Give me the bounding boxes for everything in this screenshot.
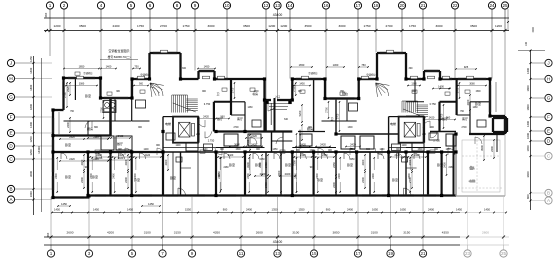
svg-text:1200: 1200 xyxy=(280,24,287,28)
svg-text:1: 1 xyxy=(49,3,52,8)
svg-text:2450: 2450 xyxy=(259,159,265,161)
svg-text:17: 17 xyxy=(355,251,361,256)
svg-text:1400: 1400 xyxy=(526,68,530,74)
svg-text:餐厅: 餐厅 xyxy=(442,116,448,121)
svg-text:2700: 2700 xyxy=(64,92,67,98)
svg-text:2700: 2700 xyxy=(461,127,467,129)
svg-text:9: 9 xyxy=(191,251,194,256)
svg-text:2400: 2400 xyxy=(347,208,353,212)
svg-text:900: 900 xyxy=(223,208,228,212)
svg-text:25: 25 xyxy=(501,251,507,256)
svg-text:2420: 2420 xyxy=(69,158,75,161)
svg-text:17: 17 xyxy=(355,3,361,8)
svg-text:13: 13 xyxy=(275,251,281,256)
svg-text:900: 900 xyxy=(156,145,161,147)
svg-text:G: G xyxy=(547,96,551,101)
small fixture marks xyxy=(75,72,470,153)
svg-text:3: 3 xyxy=(88,251,91,256)
svg-text:C: C xyxy=(547,154,551,159)
svg-text:1500: 1500 xyxy=(349,149,355,151)
center vestibule shaft walls xyxy=(266,98,275,132)
svg-text:25: 25 xyxy=(502,3,508,8)
svg-text:2400: 2400 xyxy=(80,177,84,183)
svg-text:卧室: 卧室 xyxy=(65,142,71,147)
svg-text:H: H xyxy=(547,77,550,82)
svg-text:2400: 2400 xyxy=(372,173,375,179)
outer wall left edge xyxy=(53,78,64,198)
outer wall top mid-right xyxy=(292,79,377,99)
window bay left xyxy=(199,71,215,79)
svg-text:2400: 2400 xyxy=(134,173,137,179)
svg-text:餐厅: 餐厅 xyxy=(117,141,123,146)
outer wall bottom-left wing xyxy=(52,196,90,198)
svg-text:2420: 2420 xyxy=(69,136,75,139)
svg-text:1200: 1200 xyxy=(175,145,181,147)
svg-text:18: 18 xyxy=(373,3,379,8)
svg-text:客厅: 客厅 xyxy=(462,116,468,121)
corridor walls at cores xyxy=(163,117,441,148)
svg-text:925: 925 xyxy=(464,65,469,69)
svg-text:1300: 1300 xyxy=(333,63,339,67)
svg-text:750: 750 xyxy=(361,63,366,67)
svg-text:750: 750 xyxy=(134,64,139,68)
svg-text:2400: 2400 xyxy=(90,173,93,179)
svg-text:2280: 2280 xyxy=(448,167,454,169)
svg-text:2400: 2400 xyxy=(361,177,365,183)
svg-text:2420: 2420 xyxy=(414,154,420,157)
svg-text:900: 900 xyxy=(430,127,435,129)
left mid-band dim rows xyxy=(59,136,108,162)
svg-text:D: D xyxy=(547,139,551,144)
svg-text:380: 380 xyxy=(116,91,121,93)
plan title note xyxy=(100,48,138,60)
upper band partitions right unit xyxy=(322,79,498,196)
svg-text:16: 16 xyxy=(323,3,329,8)
svg-text:3.750: 3.750 xyxy=(429,102,436,106)
svg-text:E: E xyxy=(547,129,550,134)
entry halls below cores xyxy=(173,152,424,196)
svg-text:2400: 2400 xyxy=(428,208,434,212)
svg-text:3900: 3900 xyxy=(480,145,484,151)
svg-text:190: 190 xyxy=(46,233,50,238)
svg-text:5: 5 xyxy=(131,251,134,256)
svg-text:1450: 1450 xyxy=(526,145,530,151)
svg-text:1550: 1550 xyxy=(299,208,305,212)
svg-text:2420: 2420 xyxy=(203,114,209,118)
svg-text:1500: 1500 xyxy=(417,149,423,151)
svg-text:1460: 1460 xyxy=(247,107,253,109)
svg-text:1250: 1250 xyxy=(29,149,33,155)
svg-text:2700: 2700 xyxy=(233,127,239,129)
svg-text:卧室: 卧室 xyxy=(437,162,443,167)
svg-text:卧室: 卧室 xyxy=(392,177,398,182)
corridor micro dimensions xyxy=(70,91,481,169)
bottom dimension rows with axis bubbles 1-25 xyxy=(44,197,509,257)
svg-text:900: 900 xyxy=(298,91,303,93)
svg-text:1800: 1800 xyxy=(526,104,530,110)
kitchen stove fixture xyxy=(103,101,116,113)
svg-text:2420: 2420 xyxy=(118,154,124,157)
svg-text:2280: 2280 xyxy=(223,167,229,169)
svg-text:卫: 卫 xyxy=(216,92,219,96)
svg-text:1200: 1200 xyxy=(54,24,61,28)
svg-text:2420: 2420 xyxy=(93,136,99,139)
svg-text:3100: 3100 xyxy=(144,231,151,235)
svg-text:2420: 2420 xyxy=(395,154,401,157)
svg-text:1400: 1400 xyxy=(438,84,444,88)
svg-text:1750: 1750 xyxy=(409,24,416,28)
svg-text:1500: 1500 xyxy=(532,27,535,33)
svg-text:6: 6 xyxy=(149,3,152,8)
svg-text:800: 800 xyxy=(94,127,99,129)
outer wall right cap xyxy=(469,79,505,134)
svg-text:H: H xyxy=(9,76,12,81)
svg-text:8: 8 xyxy=(176,3,179,8)
svg-text:F: F xyxy=(10,115,13,120)
window frame marks top facade xyxy=(77,50,474,79)
svg-text:2600: 2600 xyxy=(256,231,263,235)
svg-text:住1: 住1 xyxy=(470,165,475,170)
svg-text:3400: 3400 xyxy=(526,171,530,177)
corridor fixtures xyxy=(166,120,486,151)
svg-text:2400: 2400 xyxy=(408,173,411,179)
svg-text:卧室: 卧室 xyxy=(85,93,91,98)
svg-text:F: F xyxy=(547,115,550,120)
door swing arcs xyxy=(85,104,482,155)
svg-text:900: 900 xyxy=(220,149,225,151)
svg-text:900: 900 xyxy=(326,208,331,212)
svg-text:24: 24 xyxy=(489,3,495,8)
svg-text:B: B xyxy=(547,191,550,196)
svg-text:15: 15 xyxy=(311,251,317,256)
svg-text:19: 19 xyxy=(388,251,394,256)
svg-text:4: 4 xyxy=(100,3,103,8)
svg-text:21: 21 xyxy=(420,3,426,8)
svg-text:2400: 2400 xyxy=(490,146,494,152)
svg-text:2420: 2420 xyxy=(350,142,356,146)
center recess wall xyxy=(265,79,293,100)
svg-text:760: 760 xyxy=(70,111,75,113)
svg-text:1000: 1000 xyxy=(29,191,33,197)
svg-text:3100: 3100 xyxy=(371,231,378,235)
svg-text:190: 190 xyxy=(44,13,48,18)
svg-text:2700: 2700 xyxy=(326,107,329,113)
faint adjacent unit bottom right xyxy=(456,134,505,196)
svg-text:2400: 2400 xyxy=(332,182,336,188)
svg-text:卧室: 卧室 xyxy=(229,162,235,167)
svg-text:A: A xyxy=(547,198,551,203)
svg-text:760: 760 xyxy=(460,111,465,113)
right dimension column with axis bubbles A-J xyxy=(507,9,552,210)
svg-text:1750: 1750 xyxy=(364,24,371,28)
svg-text:1800: 1800 xyxy=(29,104,33,110)
upper cell sill dims xyxy=(65,82,486,86)
svg-text:1500: 1500 xyxy=(475,91,481,93)
svg-text:20: 20 xyxy=(399,3,405,8)
svg-text:1100: 1100 xyxy=(380,149,386,151)
stair bay right xyxy=(377,53,406,79)
svg-text:电梯: 电梯 xyxy=(165,121,171,126)
svg-text:2400: 2400 xyxy=(338,173,341,179)
svg-text:3000: 3000 xyxy=(208,24,215,28)
svg-text:800: 800 xyxy=(526,194,530,199)
svg-text:100: 100 xyxy=(525,41,528,46)
svg-text:900: 900 xyxy=(412,91,417,93)
svg-text:10: 10 xyxy=(224,3,230,8)
svg-text:300: 300 xyxy=(182,67,187,70)
svg-text:2450: 2450 xyxy=(442,162,446,168)
svg-text:2400: 2400 xyxy=(124,159,128,165)
svg-text:2400: 2400 xyxy=(247,173,250,179)
svg-text:C: C xyxy=(9,157,13,162)
svg-text:13: 13 xyxy=(275,3,281,8)
side rooms next to stair bays xyxy=(59,82,496,134)
svg-text:2600: 2600 xyxy=(482,231,489,235)
svg-text:14400: 14400 xyxy=(37,146,41,154)
svg-text:2420: 2420 xyxy=(118,134,124,138)
winder stair right bay xyxy=(376,83,390,97)
svg-text:3.750: 3.750 xyxy=(204,102,211,106)
svg-text:卧室: 卧室 xyxy=(475,101,481,106)
svg-text:2700: 2700 xyxy=(160,24,167,28)
svg-text:2420: 2420 xyxy=(300,154,306,157)
svg-text:2400: 2400 xyxy=(113,173,116,179)
outer wall top right xyxy=(406,78,490,80)
bay and entry micro labels xyxy=(182,67,413,99)
svg-text:2: 2 xyxy=(63,3,66,8)
svg-text:11: 11 xyxy=(239,251,244,256)
svg-text:3900: 3900 xyxy=(277,170,281,176)
svg-text:2420: 2420 xyxy=(145,154,151,157)
svg-text:2.750: 2.750 xyxy=(208,139,215,143)
outer wall top mid-left xyxy=(181,78,265,80)
svg-text:1450: 1450 xyxy=(127,208,133,212)
window bay right xyxy=(424,71,440,79)
outer wall top-left block xyxy=(64,78,150,98)
svg-text:21: 21 xyxy=(420,251,426,256)
svg-text:900: 900 xyxy=(138,127,143,129)
svg-text:3080: 3080 xyxy=(79,82,85,85)
svg-text:2400: 2400 xyxy=(113,24,120,28)
room name labels xyxy=(85,91,481,182)
svg-text:2400: 2400 xyxy=(408,159,412,165)
svg-text:卧室: 卧室 xyxy=(285,162,291,167)
svg-text:1800: 1800 xyxy=(526,85,530,91)
svg-text:240: 240 xyxy=(422,134,427,136)
svg-text:空调机位: 空调机位 xyxy=(83,71,93,75)
svg-text:900: 900 xyxy=(139,82,144,85)
svg-text:1200: 1200 xyxy=(268,24,275,28)
svg-text:2400: 2400 xyxy=(124,177,128,183)
svg-text:3500: 3500 xyxy=(79,24,86,28)
svg-text:4350: 4350 xyxy=(213,231,220,235)
svg-text:2420: 2420 xyxy=(66,86,70,92)
svg-text:2420: 2420 xyxy=(251,142,257,146)
svg-text:空调机位: 空调机位 xyxy=(366,73,376,77)
svg-text:1460: 1460 xyxy=(472,107,478,109)
svg-text:1300: 1300 xyxy=(347,127,353,129)
extra room labels xyxy=(65,116,448,179)
svg-text:A: A xyxy=(9,197,13,202)
svg-text:1650: 1650 xyxy=(299,63,305,67)
svg-text:电梯: 电梯 xyxy=(390,121,396,126)
svg-text:12: 12 xyxy=(263,3,269,8)
stair bay left xyxy=(150,53,181,79)
svg-text:1500: 1500 xyxy=(235,149,241,151)
svg-text:E: E xyxy=(9,131,12,136)
svg-text:卫: 卫 xyxy=(330,117,333,121)
svg-text:2700: 2700 xyxy=(337,113,340,119)
svg-text:1200: 1200 xyxy=(143,149,149,151)
svg-text:2.750: 2.750 xyxy=(433,139,440,143)
svg-text:卧室: 卧室 xyxy=(65,174,71,179)
svg-text:22: 22 xyxy=(452,3,458,8)
svg-text:2500: 2500 xyxy=(298,129,302,135)
svg-text:900: 900 xyxy=(256,149,261,151)
svg-text:4200: 4200 xyxy=(107,231,114,235)
winder stair left bay xyxy=(150,83,164,97)
svg-text:23: 23 xyxy=(465,251,471,256)
svg-text:2400: 2400 xyxy=(246,139,250,145)
structural column blobs xyxy=(51,76,491,199)
upper band room dims xyxy=(64,82,460,131)
vertical axis grid lines from top xyxy=(50,31,505,116)
svg-text:900: 900 xyxy=(202,91,207,93)
svg-text:1200: 1200 xyxy=(495,24,502,28)
svg-text:43400: 43400 xyxy=(273,240,283,244)
svg-text:2400: 2400 xyxy=(66,122,70,128)
svg-text:43400: 43400 xyxy=(273,13,283,17)
svg-text:2700: 2700 xyxy=(386,24,393,28)
svg-text:1450: 1450 xyxy=(204,64,210,68)
svg-text:D: D xyxy=(9,144,13,149)
svg-text:1450: 1450 xyxy=(93,208,99,212)
dim row below mid spine xyxy=(89,154,426,158)
svg-text:1400: 1400 xyxy=(526,121,530,127)
interior vertical dimensions xyxy=(66,82,495,193)
svg-text:1450: 1450 xyxy=(61,202,67,206)
svg-text:14: 14 xyxy=(287,3,293,8)
svg-text:2450: 2450 xyxy=(349,159,355,161)
svg-text:7: 7 xyxy=(161,251,164,256)
bottom room dims and door arcs xyxy=(55,153,420,193)
svg-text:空调板位置图示: 空调板位置图示 xyxy=(108,48,129,53)
svg-text:1650: 1650 xyxy=(445,149,451,151)
svg-text:3500: 3500 xyxy=(305,24,312,28)
svg-text:2420: 2420 xyxy=(429,115,435,119)
svg-text:5200: 5200 xyxy=(298,110,302,116)
top dimension row with axis bubbles 1-25 xyxy=(44,2,509,32)
svg-text:3850: 3850 xyxy=(333,231,340,235)
svg-text:1350: 1350 xyxy=(272,208,278,212)
svg-text:2700: 2700 xyxy=(101,107,104,113)
bottom band room divider walls xyxy=(88,152,442,196)
svg-text:-2.12: -2.12 xyxy=(469,179,475,183)
svg-text:1200: 1200 xyxy=(401,145,407,147)
svg-text:1300: 1300 xyxy=(411,82,417,85)
AC position labels xyxy=(83,71,376,77)
svg-text:2420: 2420 xyxy=(320,142,326,146)
svg-text:B: B xyxy=(9,187,12,192)
balcony box top right xyxy=(493,118,507,132)
svg-text:3000: 3000 xyxy=(436,24,443,28)
interior dimension rows xyxy=(57,63,477,207)
svg-text:1450: 1450 xyxy=(484,208,490,212)
core with elevator and stair right xyxy=(399,101,441,143)
svg-text:1750: 1750 xyxy=(183,24,190,28)
svg-text:1400: 1400 xyxy=(29,122,33,128)
svg-text:2700: 2700 xyxy=(293,86,296,92)
svg-text:3000: 3000 xyxy=(29,171,33,177)
svg-text:2400: 2400 xyxy=(55,173,58,179)
window lines xyxy=(52,52,506,198)
svg-text:2400: 2400 xyxy=(164,159,168,165)
center entry porch steps xyxy=(266,101,292,110)
svg-text:4350: 4350 xyxy=(442,231,449,235)
svg-text:2400: 2400 xyxy=(264,182,268,188)
svg-text:2700: 2700 xyxy=(232,87,235,93)
left dimension column with axis bubbles A-J xyxy=(7,56,52,215)
svg-text:2420: 2420 xyxy=(93,158,99,161)
svg-text:3500: 3500 xyxy=(470,24,477,28)
svg-text:2450: 2450 xyxy=(264,162,268,168)
outer wall bottom main xyxy=(88,194,456,196)
interior junction wall left unit xyxy=(109,98,111,136)
svg-text:640: 640 xyxy=(284,119,289,121)
svg-text:2600: 2600 xyxy=(67,231,74,235)
svg-text:2420: 2420 xyxy=(251,134,257,138)
svg-text:1800: 1800 xyxy=(29,84,33,90)
svg-text:2450: 2450 xyxy=(258,162,262,168)
svg-text:2400: 2400 xyxy=(260,172,266,176)
svg-text:2400: 2400 xyxy=(295,173,298,179)
svg-text:5: 5 xyxy=(130,3,133,8)
svg-text:餐厅: 餐厅 xyxy=(217,116,223,121)
svg-text:J: J xyxy=(10,61,12,66)
svg-text:1400: 1400 xyxy=(29,67,33,73)
svg-text:2400: 2400 xyxy=(466,99,470,105)
svg-text:1450: 1450 xyxy=(456,208,462,212)
svg-text:卧室: 卧室 xyxy=(347,162,353,167)
svg-text:卧室: 卧室 xyxy=(170,175,176,180)
svg-text:入口: 入口 xyxy=(275,95,281,99)
svg-text:1: 1 xyxy=(50,251,53,256)
svg-text:2400: 2400 xyxy=(80,159,84,165)
svg-text:3000: 3000 xyxy=(339,24,346,28)
svg-text:3150: 3150 xyxy=(403,231,410,235)
svg-text:2700: 2700 xyxy=(457,87,460,93)
svg-text:厨房: 厨房 xyxy=(87,126,93,131)
svg-text:3100: 3100 xyxy=(292,231,299,235)
svg-text:1450: 1450 xyxy=(299,82,305,85)
svg-text:J: J xyxy=(547,61,549,66)
svg-text:2450: 2450 xyxy=(332,162,336,168)
svg-text:2400: 2400 xyxy=(246,208,252,212)
bottom unit dimension line xyxy=(51,208,507,214)
svg-text:1400: 1400 xyxy=(106,64,112,68)
svg-text:1650: 1650 xyxy=(400,208,406,212)
core with elevator and stair left xyxy=(172,95,215,143)
svg-text:2400: 2400 xyxy=(361,159,365,165)
svg-text:楼号:84058-7#(二): 楼号:84058-7#(二) xyxy=(108,55,131,59)
svg-text:9: 9 xyxy=(194,3,197,8)
svg-text:2420: 2420 xyxy=(322,154,328,157)
svg-text:2420: 2420 xyxy=(228,154,234,157)
svg-text:3600: 3600 xyxy=(234,142,240,146)
upper band partitions left unit xyxy=(96,79,292,152)
svg-text:1000: 1000 xyxy=(526,133,530,139)
svg-text:2400: 2400 xyxy=(218,173,221,179)
